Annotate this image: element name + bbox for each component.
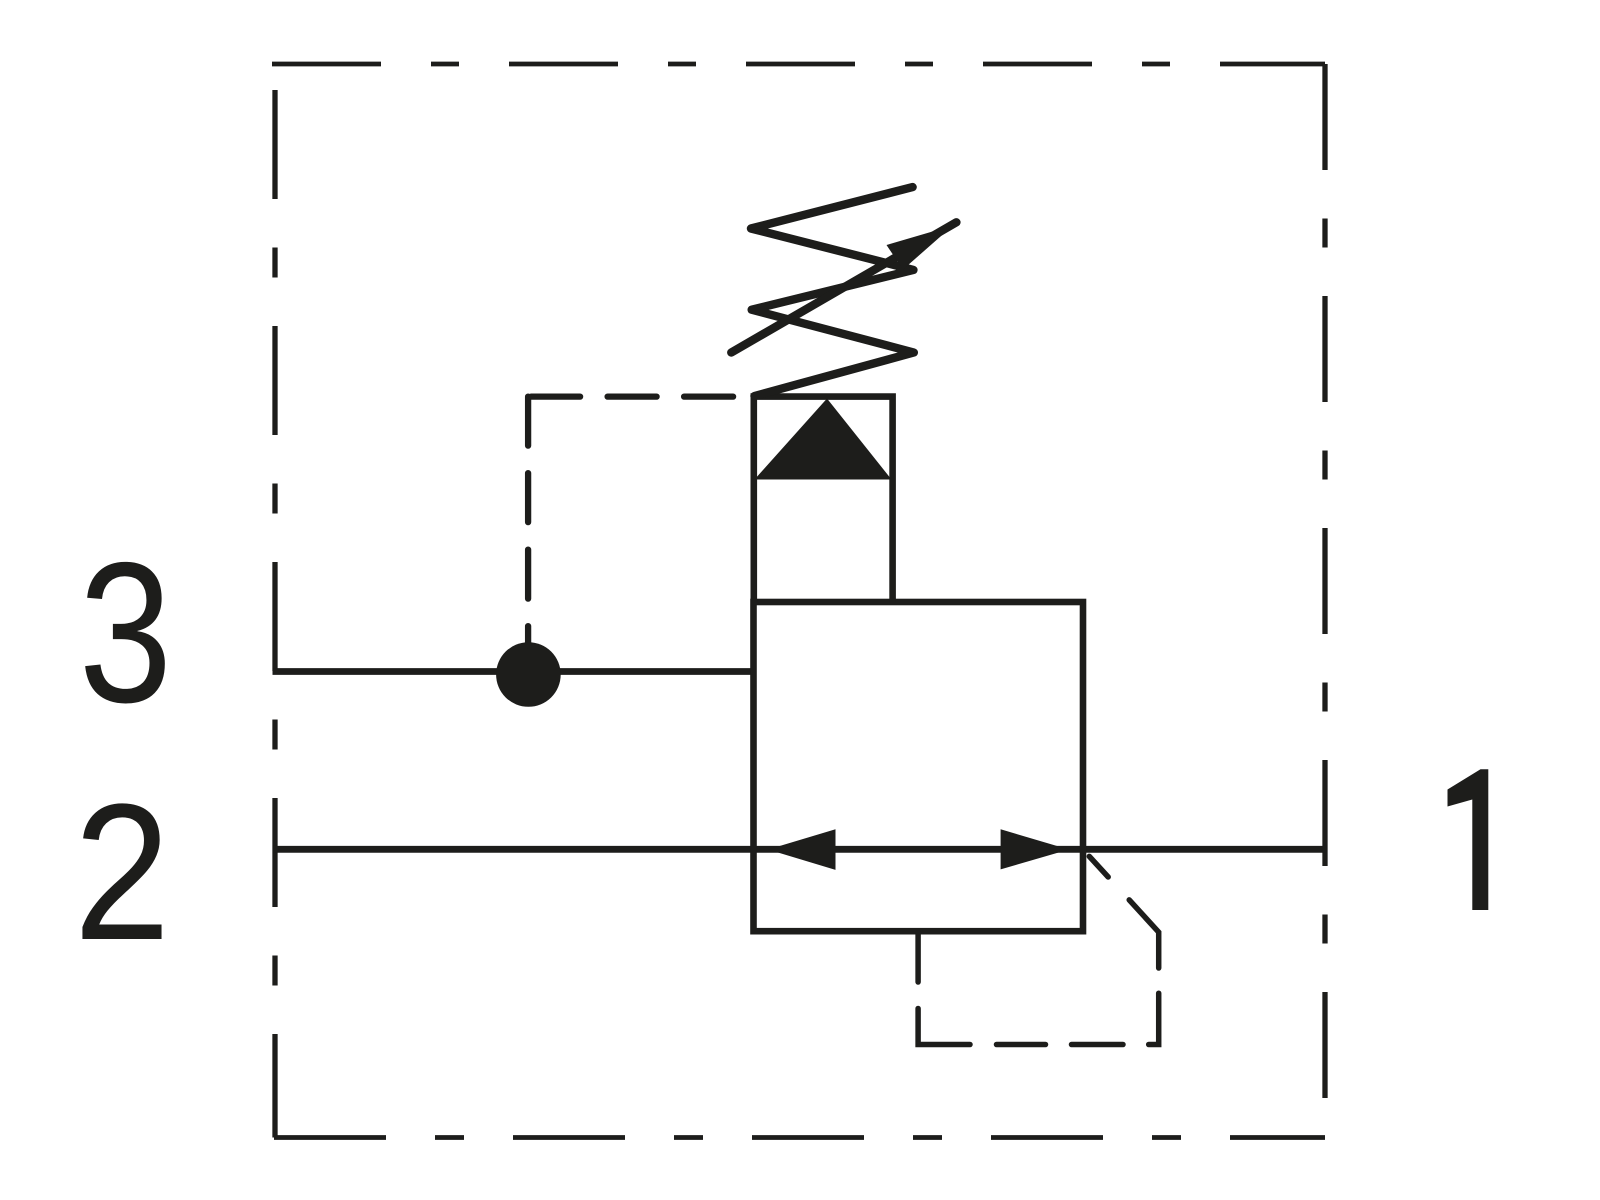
spring (zigzag) <box>751 187 914 396</box>
drain dash: corner at bottom-right of loop <box>1149 993 1159 1044</box>
drain dash: corner at bottom-left of loop <box>918 1009 970 1045</box>
drain dash: diagonal near junction <box>1089 856 1108 877</box>
adjustment arrow shaft <box>731 222 956 352</box>
port label 1 (drawn as path) <box>1448 769 1489 910</box>
pilot sense dashed line: horizontal run <box>528 393 745 399</box>
enclosure dash-dot border: bottom side <box>274 1135 1325 1140</box>
enclosure dash-dot border: left side <box>272 64 277 1138</box>
pilot sense dashed line: vertical run <box>525 397 531 645</box>
enclosure dash-dot border: top side <box>272 62 1325 67</box>
junction node on port 3 line <box>496 642 561 707</box>
port 3 line <box>273 668 754 675</box>
drain dash: right vertical + upper corner diagonal <box>1129 900 1159 968</box>
svg-text:2: 2 <box>74 764 171 981</box>
main valve body box <box>754 602 1084 931</box>
flow arrows on port 2 line: right head <box>1001 829 1069 869</box>
pilot stage box <box>754 397 893 602</box>
port 2 / port 1 line <box>273 846 1326 853</box>
drain dashed path piece: solid stub below box <box>915 933 921 982</box>
enclosure dash-dot border: right side <box>1322 64 1327 1138</box>
adjustment arrow head <box>887 226 954 270</box>
drain dash: bottom horizontal 1 <box>997 1042 1046 1048</box>
flow arrows on port 2 line: left head <box>768 829 836 870</box>
pilot poppet (filled triangle) <box>755 399 892 480</box>
svg-text:3: 3 <box>79 522 172 745</box>
drain dash: bottom horizontal 2 <box>1072 1042 1124 1048</box>
